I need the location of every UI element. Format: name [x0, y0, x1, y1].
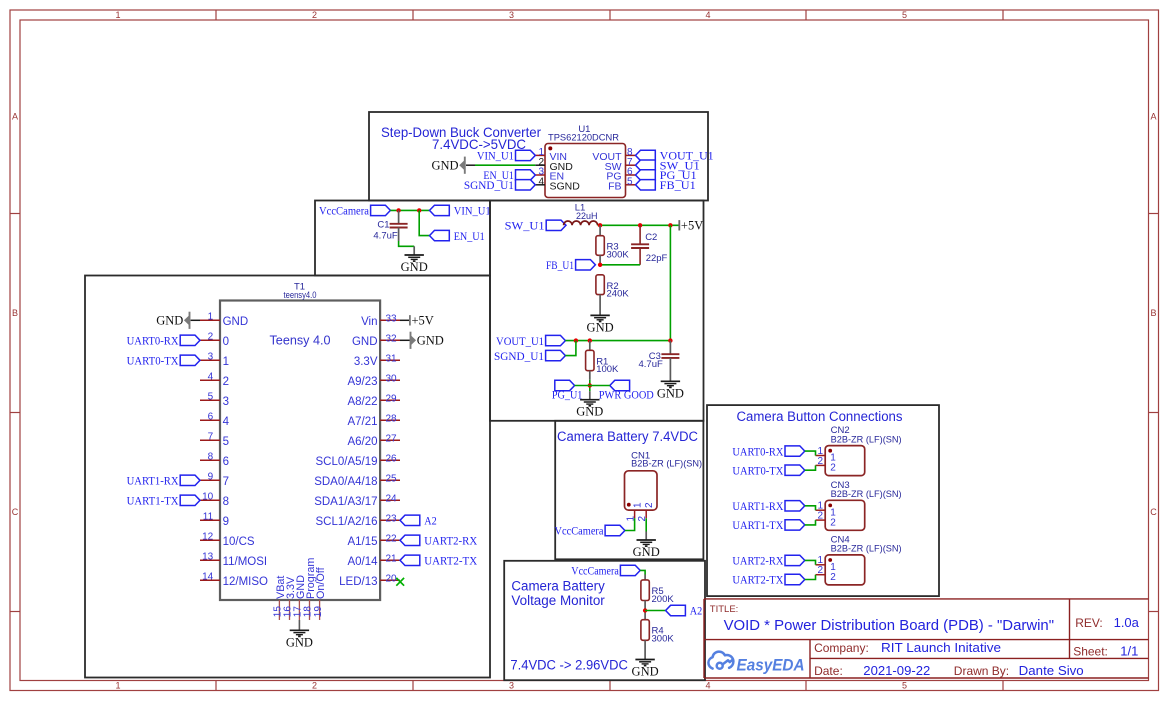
svg-text:33: 33	[386, 313, 398, 324]
svg-text:Vin: Vin	[361, 316, 377, 328]
svg-text:A: A	[12, 112, 18, 122]
svg-text:SCL0/A5/19: SCL0/A5/19	[315, 456, 377, 468]
svg-text:4: 4	[223, 416, 230, 428]
svg-text:10: 10	[202, 491, 214, 502]
power flag +5V (regulator output)	[679, 219, 703, 233]
pin 23 SCL1/A2/16 of T1	[315, 513, 400, 528]
svg-text:GND: GND	[587, 320, 614, 334]
svg-text:A0/14: A0/14	[347, 556, 378, 568]
pin 1 of CN4	[816, 555, 837, 573]
svg-text:2: 2	[817, 456, 823, 467]
pin 1 of CN2	[816, 446, 837, 464]
no-connect X at T1 pin 20	[396, 578, 404, 586]
wire UART0-TX to CN2 pin 2	[805, 465, 816, 470]
wire PG node to PWR GOOD	[575, 385, 610, 387]
svg-text:2021-09-22: 2021-09-22	[863, 663, 930, 678]
svg-text:Drawn By:: Drawn By:	[954, 664, 1009, 678]
node junction divider tap A2	[643, 608, 647, 612]
svg-text:1: 1	[223, 356, 229, 368]
transistor T1 teensy4.0 body	[220, 282, 380, 601]
svg-text:teensy4.0: teensy4.0	[284, 290, 317, 301]
svg-text:2: 2	[223, 376, 229, 388]
svg-text:SDA1/A3/17: SDA1/A3/17	[314, 496, 377, 508]
net flag UART1-RX	[127, 475, 200, 487]
pin 29 A8/22 of T1	[347, 393, 400, 408]
wire +5V rail down to VOUT node	[669, 225, 671, 340]
wire T1 pin 17 to ground	[298, 620, 300, 630]
connector CN1 B2B-ZR (LF)(SN) body	[625, 451, 703, 511]
svg-text:SGND: SGND	[550, 180, 581, 192]
svg-text:VccCamera: VccCamera	[555, 526, 604, 538]
svg-text:B: B	[12, 308, 18, 318]
net flag A2 (to Teensy)	[666, 605, 703, 617]
net flag UART0-TX	[127, 355, 200, 367]
svg-text:A1/15: A1/15	[347, 536, 377, 548]
svg-text:Camera Button Connections: Camera Button Connections	[737, 409, 903, 424]
pin 2 0 of T1	[200, 331, 229, 348]
svg-text:7.4VDC -> 2.96VDC: 7.4VDC -> 2.96VDC	[510, 657, 628, 672]
wire FB node to C2 bottom	[600, 264, 640, 266]
text: Step-Down Buck Converter title	[381, 124, 541, 152]
pin 1 marker dot CN2	[828, 449, 832, 453]
pin 7 5 of T1	[200, 431, 229, 448]
pin 1 VIN of U1	[535, 147, 567, 163]
svg-text:1/1: 1/1	[1120, 644, 1138, 659]
svg-text:1: 1	[115, 681, 120, 691]
resistor R1 100K	[586, 341, 619, 400]
net flag FB_U1 (U1 output)	[636, 180, 696, 192]
net flag PWR GOOD	[599, 380, 654, 401]
node junction SW/R3	[598, 223, 602, 227]
svg-text:28: 28	[386, 413, 398, 424]
svg-text:3: 3	[509, 10, 514, 20]
svg-text:TPS62120DCNR: TPS62120DCNR	[548, 133, 619, 144]
svg-text:4: 4	[208, 371, 214, 382]
pin 15 VBat of T1	[273, 576, 287, 620]
svg-text:C1: C1	[377, 220, 389, 231]
svg-text:9: 9	[223, 516, 229, 528]
pin 1 GND of T1	[200, 311, 248, 328]
svg-text:GND: GND	[401, 260, 428, 274]
text: 7.4VDC -> 2.96VDC	[510, 657, 628, 672]
svg-text:29: 29	[386, 393, 398, 404]
node junction SGND tie	[574, 338, 578, 342]
wire VOUT rail	[565, 340, 670, 342]
node junction C2 top	[638, 223, 642, 227]
svg-text:SCL1/A2/16: SCL1/A2/16	[315, 516, 377, 528]
svg-text:8: 8	[223, 496, 229, 508]
pin 27 A6/20 of T1	[347, 433, 400, 448]
svg-text:REV:: REV:	[1075, 616, 1103, 630]
net flag SGND_U1 (tie to VOUT)	[494, 350, 565, 362]
svg-text:32: 32	[386, 333, 398, 344]
pin 7 SW of U1	[605, 157, 636, 173]
pin 3 EN of U1	[535, 167, 564, 183]
svg-text:FB_U1: FB_U1	[660, 180, 696, 192]
svg-text:11/MOSI: 11/MOSI	[223, 556, 268, 568]
svg-text:GND: GND	[286, 635, 313, 649]
ground GND below C1	[401, 246, 428, 274]
net flag UART0-RX (button)	[732, 446, 804, 458]
inductor L1 22uH	[564, 202, 598, 225]
svg-text:21: 21	[386, 553, 398, 564]
svg-text:31: 31	[386, 353, 398, 364]
svg-text:13: 13	[202, 551, 214, 562]
svg-text:A8/22: A8/22	[347, 396, 377, 408]
wire VccCamera to VIN_U1/EN_U1	[390, 209, 429, 211]
svg-text:SGND_U1: SGND_U1	[464, 180, 514, 192]
svg-text:UART0-RX: UART0-RX	[732, 446, 784, 458]
net flag A2 at T1 pin 23	[400, 515, 437, 527]
pin 4 2 of T1	[200, 371, 229, 388]
wire EN branch down	[419, 210, 429, 235]
svg-text:VIN_U1: VIN_U1	[477, 151, 514, 163]
net flag SW_U1 (from U1)	[505, 220, 566, 232]
pin 1 marker dot U1	[548, 146, 552, 150]
node junction R1 top	[588, 338, 592, 342]
svg-text:Date:: Date:	[814, 664, 843, 678]
svg-text:GND: GND	[633, 545, 660, 559]
net flag VccCamera (battery +)	[555, 525, 625, 537]
resistor R4 300K	[641, 620, 674, 660]
svg-text:GND: GND	[352, 336, 378, 348]
ground GND below T1	[286, 630, 313, 649]
wire UART1-RX to CN3 pin 1	[805, 506, 816, 510]
box: Camera Button Connections section	[707, 405, 939, 596]
svg-text:5: 5	[223, 436, 229, 448]
svg-text:3: 3	[208, 351, 214, 362]
svg-text:+5V: +5V	[412, 314, 434, 328]
pin 1 marker dot CN4	[828, 558, 832, 562]
net flag UART1-TX	[127, 495, 200, 507]
pin 12 10/CS of T1	[200, 531, 255, 548]
wire VccCamera to R5	[640, 570, 645, 574]
svg-text:+5V: +5V	[681, 219, 703, 233]
pin 4 SGND of U1	[535, 176, 580, 192]
pin 2 GND of U1	[535, 157, 573, 173]
svg-text:VIN_U1: VIN_U1	[454, 206, 491, 218]
svg-text:27: 27	[386, 433, 398, 444]
pin 2 of CN4	[816, 565, 837, 583]
pin 21 A0/14 of T1	[347, 553, 400, 568]
svg-text:1: 1	[115, 10, 120, 20]
svg-text:7.4VDC->5VDC: 7.4VDC->5VDC	[432, 136, 526, 152]
power flag +5V at T1 Vin	[400, 314, 434, 328]
pin 24 SDA1/A3/17 of T1	[314, 493, 400, 508]
svg-text:20: 20	[386, 573, 398, 584]
svg-text:7: 7	[223, 476, 229, 488]
pin 1 marker dot CN1	[627, 503, 631, 507]
wire GND flag to U1 pin 2	[466, 164, 535, 166]
box: Teensy section	[85, 276, 490, 678]
ground flag GND at T1 pin 32	[400, 332, 444, 349]
resistor R3 300K	[596, 225, 629, 264]
ground GND below C3	[657, 381, 684, 400]
pin 1 of CN1	[625, 502, 643, 522]
svg-text:2: 2	[208, 331, 214, 342]
pin 14 12/MISO of T1	[200, 571, 268, 588]
svg-text:300K: 300K	[607, 250, 630, 261]
svg-text:VccCamera: VccCamera	[571, 566, 619, 578]
text: Camera Battery Voltage Monitor title	[511, 579, 605, 609]
svg-text:2: 2	[830, 463, 836, 474]
pin 19 On/Off of T1	[313, 566, 327, 620]
svg-text:1.0a: 1.0a	[1114, 615, 1140, 630]
capacitor C3 4.7uF	[639, 341, 680, 381]
text: Sheet 1/1	[1073, 644, 1138, 659]
svg-text:GND: GND	[432, 159, 459, 173]
pin 1 of CN3	[816, 501, 837, 519]
svg-text:A7/21: A7/21	[347, 416, 377, 428]
net flag UART2-RX at T1 pin 22	[400, 535, 478, 547]
svg-text:LED/13: LED/13	[339, 576, 377, 588]
svg-text:SGND_U1: SGND_U1	[494, 351, 544, 363]
ground GND below CN1	[633, 540, 660, 559]
svg-text:2: 2	[830, 517, 836, 528]
svg-text:Camera Battery 7.4VDC: Camera Battery 7.4VDC	[557, 429, 698, 444]
svg-text:C: C	[1150, 507, 1157, 517]
text: schematic title VOID * Power Distribution Board (PDB) - "Darwin"	[724, 617, 1054, 634]
box: Camera Battery section	[555, 421, 703, 560]
svg-text:24: 24	[386, 493, 398, 504]
svg-text:0: 0	[223, 336, 229, 348]
svg-text:TITLE:: TITLE:	[710, 604, 739, 615]
pin 20 LED/13 of T1	[339, 573, 400, 588]
svg-text:12/MISO: 12/MISO	[223, 576, 268, 588]
text: Date / Drawn By row	[814, 663, 1084, 678]
svg-text:5: 5	[208, 391, 214, 402]
pin 31 3.3V of T1	[354, 353, 400, 368]
text: TITLE label	[710, 604, 739, 615]
pin 30 A9/23 of T1	[347, 373, 400, 388]
connector CN4 B2B-ZR (LF)(SN) body	[825, 535, 901, 585]
net flag PG_U1 (U1 output)	[636, 170, 697, 182]
node junction C3 top	[668, 338, 672, 342]
net flag PG_U1 (power good)	[552, 380, 583, 401]
svg-text:GND: GND	[576, 405, 603, 419]
svg-text:2: 2	[817, 511, 823, 522]
pin 8 VOUT of U1	[592, 147, 635, 163]
box: Step-Down Buck Converter section	[369, 112, 708, 201]
net flag VccCamera (monitor input)	[571, 565, 640, 577]
svg-text:200K: 200K	[652, 594, 675, 605]
svg-text:2: 2	[644, 502, 655, 508]
svg-text:Sheet:: Sheet:	[1073, 645, 1108, 659]
pin 10 8 of T1	[200, 491, 229, 508]
svg-text:UART2-TX: UART2-TX	[424, 556, 478, 568]
net flag UART1-RX (button)	[732, 501, 804, 513]
svg-text:2: 2	[817, 565, 823, 576]
pin 32 GND of T1	[352, 333, 400, 348]
net flag VOUT_U1 (U1 output)	[636, 150, 714, 162]
svg-text:23: 23	[386, 513, 398, 524]
wire C1 to ground	[399, 241, 415, 246]
svg-text:3: 3	[509, 681, 514, 691]
text: REV 1.0a	[1075, 615, 1139, 630]
net flag EN_U1 (U1 input)	[483, 170, 535, 182]
ground GND below R4	[632, 660, 659, 679]
capacitor C1 4.7uF	[373, 210, 407, 241]
net flag UART1-TX (button)	[732, 520, 804, 532]
svg-text:On/Off: On/Off	[315, 566, 327, 599]
svg-text:GND: GND	[223, 316, 249, 328]
svg-text:300K: 300K	[652, 634, 675, 645]
wire GND flag to pin 1	[191, 319, 200, 321]
svg-text:Voltage Monitor: Voltage Monitor	[511, 593, 605, 608]
pin 6 PG of U1	[606, 167, 635, 183]
svg-text:GND: GND	[632, 665, 659, 679]
svg-text:B2B-ZR (LF)(SN): B2B-ZR (LF)(SN)	[831, 434, 902, 445]
pin 18 Program of T1	[303, 558, 317, 620]
svg-text:4.7uF: 4.7uF	[639, 359, 663, 370]
svg-text:3.3V: 3.3V	[354, 356, 378, 368]
svg-text:A2: A2	[690, 606, 703, 618]
pin 22 A1/15 of T1	[347, 533, 400, 548]
svg-text:VOUT_U1: VOUT_U1	[496, 336, 544, 348]
svg-text:EN_U1: EN_U1	[454, 231, 485, 243]
net flag UART2-TX at T1 pin 21	[400, 555, 478, 567]
net flag SW_U1 (U1 output)	[636, 160, 700, 172]
svg-text:2: 2	[312, 681, 317, 691]
ground GND below PG node	[576, 400, 603, 419]
svg-text:10/CS: 10/CS	[223, 536, 255, 548]
svg-text:2: 2	[312, 10, 317, 20]
pin 25 SDA0/A4/18 of T1	[314, 473, 400, 488]
node junction at C1 top	[396, 208, 400, 212]
text: Camera Battery 7.4VDC title	[557, 429, 698, 444]
svg-text:B2B-ZR (LF)(SN): B2B-ZR (LF)(SN)	[831, 489, 902, 500]
pin 11 9 of T1	[200, 511, 229, 528]
svg-text:Dante Sivo: Dante Sivo	[1019, 663, 1084, 678]
svg-text:Camera Battery: Camera Battery	[511, 579, 605, 594]
wire VccCamera to CN1 pin 1	[625, 518, 635, 530]
connector CN2 B2B-ZR (LF)(SN) body	[825, 425, 901, 475]
op-amp U1 TPS62120DCNR body	[545, 124, 626, 198]
svg-text:B: B	[1150, 308, 1156, 318]
resistor R5 200K	[641, 575, 674, 620]
net flag UART2-TX (button)	[732, 574, 804, 586]
ground flag GND at U1 pin 2	[432, 157, 465, 174]
wire UART0-RX to CN2 pin 1	[805, 451, 816, 455]
text: Company RIT Launch Initative	[814, 640, 1001, 655]
svg-text:B2B-ZR (LF)(SN): B2B-ZR (LF)(SN)	[631, 458, 702, 469]
pin 5 FB of U1	[608, 176, 635, 192]
svg-text:19: 19	[313, 606, 324, 618]
svg-text:22uH: 22uH	[576, 211, 598, 222]
svg-text:SDA0/A4/18: SDA0/A4/18	[314, 476, 377, 488]
node junction +5V branch	[668, 223, 672, 227]
pin 2 of CN1	[637, 502, 655, 522]
svg-text:25: 25	[386, 473, 398, 484]
svg-text:22pF: 22pF	[646, 253, 668, 264]
box: Camera Battery Voltage Monitor section	[504, 561, 705, 680]
svg-text:9: 9	[208, 471, 214, 482]
net flag VOUT_U1 (from U1)	[496, 335, 565, 347]
pin 9 7 of T1	[200, 471, 229, 488]
pin 16 3.3V of T1	[283, 576, 297, 620]
node junction at EN branch	[417, 208, 421, 212]
svg-text:5: 5	[627, 176, 633, 187]
net flag UART0-TX (button)	[732, 465, 804, 477]
svg-text:UART1-TX: UART1-TX	[732, 520, 784, 532]
svg-text:UART1-RX: UART1-RX	[127, 476, 180, 488]
pin 6 4 of T1	[200, 411, 230, 428]
svg-text:1: 1	[208, 311, 214, 322]
svg-text:3: 3	[223, 396, 229, 408]
wire tap to A2 flag	[645, 610, 666, 612]
svg-text:UART2-RX: UART2-RX	[424, 536, 478, 548]
pin 5 3 of T1	[200, 391, 229, 408]
pin 17 GND of T1	[293, 575, 307, 620]
svg-text:26: 26	[386, 453, 398, 464]
svg-text:UART1-RX: UART1-RX	[732, 501, 784, 513]
resistor R2 240K	[596, 275, 629, 315]
box: VccCamera input section	[315, 201, 490, 276]
connector CN3 B2B-ZR (LF)(SN) body	[825, 480, 901, 530]
svg-text:4.7uF: 4.7uF	[373, 231, 397, 242]
svg-text:8: 8	[208, 451, 214, 462]
pin 1 marker dot CN3	[828, 504, 832, 508]
svg-text:GND: GND	[417, 334, 444, 348]
pin 26 SCL0/A5/19 of T1	[315, 453, 400, 468]
net flag VIN_U1 (U1 input)	[477, 150, 535, 162]
svg-text:Teensy 4.0: Teensy 4.0	[270, 333, 331, 348]
svg-text:C2: C2	[645, 232, 657, 243]
svg-text:6: 6	[223, 456, 229, 468]
svg-text:7: 7	[208, 431, 214, 442]
pin 2 of CN3	[816, 511, 837, 529]
net flag FB_U1 (feedback)	[546, 260, 595, 272]
svg-text:GND: GND	[156, 314, 183, 328]
pin 13 11/MOSI of T1	[200, 551, 267, 568]
svg-text:2: 2	[830, 572, 836, 583]
svg-text:UART1-TX: UART1-TX	[127, 496, 180, 508]
box: regulator output section	[490, 201, 704, 421]
svg-text:5: 5	[902, 681, 907, 691]
svg-text:PWR GOOD: PWR GOOD	[599, 390, 654, 402]
logo EasyEDA	[708, 652, 804, 675]
svg-text:FB_U1: FB_U1	[546, 260, 574, 272]
capacitor C2 22pF	[631, 225, 667, 264]
svg-text:11: 11	[203, 511, 214, 522]
svg-text:4: 4	[705, 10, 710, 20]
svg-text:A: A	[1150, 112, 1156, 122]
svg-text:6: 6	[208, 411, 214, 422]
svg-text:22: 22	[386, 533, 398, 544]
node junction FB/R2	[598, 263, 602, 267]
svg-text:RIT Launch Initative: RIT Launch Initative	[881, 640, 1001, 655]
pin 2 of CN2	[816, 456, 837, 474]
net flag UART0-RX	[127, 335, 200, 347]
svg-text:VOID * Power Distribution Boar: VOID * Power Distribution Board (PDB) - …	[724, 617, 1054, 634]
svg-text:A6/20: A6/20	[347, 436, 377, 448]
pin 28 A7/21 of T1	[347, 413, 400, 428]
svg-text:A2: A2	[424, 516, 437, 528]
wire UART2-TX to CN4 pin 2	[805, 575, 816, 580]
pin 3 1 of T1	[200, 351, 229, 368]
pin 8 6 of T1	[200, 451, 229, 468]
svg-text:A9/23: A9/23	[347, 376, 377, 388]
svg-text:100K: 100K	[596, 364, 619, 375]
title block frame	[704, 599, 1149, 678]
svg-text:30: 30	[386, 373, 398, 384]
svg-text:Company:: Company:	[814, 641, 869, 655]
svg-text:C: C	[12, 507, 19, 517]
svg-text:VccCamera: VccCamera	[319, 206, 369, 218]
svg-text:UART0-TX: UART0-TX	[127, 356, 180, 368]
svg-text:UART2-TX: UART2-TX	[732, 575, 784, 587]
ground GND below R2	[587, 315, 614, 334]
